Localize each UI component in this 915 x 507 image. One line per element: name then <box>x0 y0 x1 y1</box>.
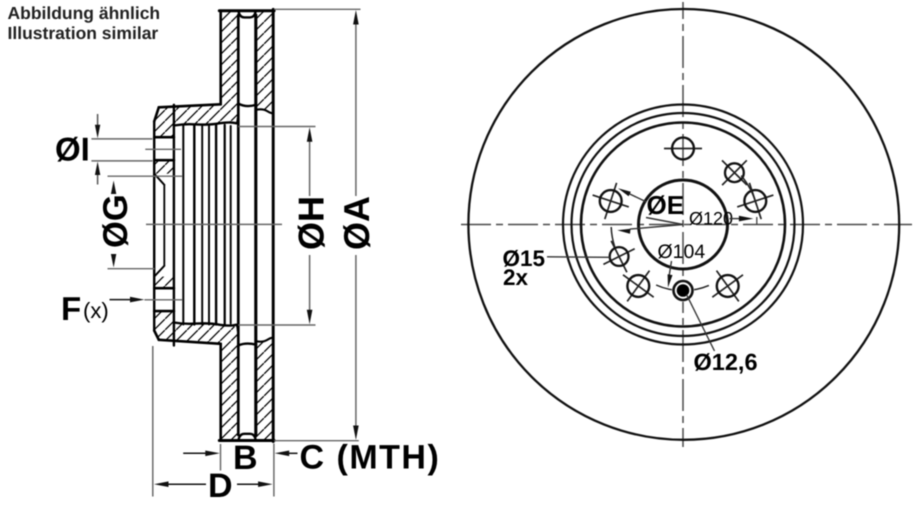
silhouette line of plate inner diameter <box>230 126 232 324</box>
rim-to-drum chamfer (top) <box>154 174 164 185</box>
set screw hole 12.6mm (filled) <box>672 279 694 301</box>
bolt hole centerline (bottom, F(x) pointer) <box>145 299 183 301</box>
dimension D: dim line + inward arrows <box>154 481 169 487</box>
dimension OH: extension lines <box>238 126 315 128</box>
label O104 with left arrow on 104 circle <box>630 225 683 230</box>
dimension OA: dim line + arrows <box>355 24 357 197</box>
hat flange top-left chamfer <box>154 107 159 121</box>
outboard plate inner fillet (top) <box>256 109 273 113</box>
horizontal centerline <box>461 224 912 226</box>
dimension OG: extension lines <box>108 175 183 177</box>
disc OD top edge <box>219 9 274 12</box>
svg-text:ØI: ØI <box>55 131 90 168</box>
hat wall inner surface <box>173 105 175 346</box>
wheel bolt hole in flange: bottom edge <box>154 159 174 162</box>
hub wall block below bolt hole (hatched) <box>154 161 174 174</box>
svg-text:2x: 2x <box>503 265 529 290</box>
hat drum recessed surface <box>163 185 165 266</box>
outboard plate inner fillet (bottom) <box>256 338 273 342</box>
dimension D: extension line left <box>152 346 154 497</box>
center bore circle <box>639 180 728 269</box>
wheel bolt hole (144deg) <box>712 271 743 302</box>
svg-text:D: D <box>208 467 233 505</box>
locating hole 15mm (lower left) <box>603 241 634 272</box>
vent channel end (bottom) <box>238 344 256 346</box>
svg-text:Abbildung ähnlich: Abbildung ähnlich <box>8 3 161 23</box>
hat bottom band top edge (wavy) <box>174 323 238 332</box>
outboard friction plate section bottom (hatched) <box>256 338 273 441</box>
vent channel top floor <box>239 12 256 18</box>
svg-text:F: F <box>61 290 81 327</box>
locating hole 15mm (upper right) <box>722 160 747 185</box>
disc axis centerline <box>146 223 282 225</box>
svg-text:ØG: ØG <box>97 194 135 248</box>
wheel bolt hole (top) <box>664 138 702 160</box>
dimension B: arrows outside <box>183 452 207 454</box>
bolt circle 104 arc (bottom) <box>656 285 709 291</box>
lower bolt hole: top edge <box>154 287 174 290</box>
lower bolt hole: bottom edge <box>154 310 174 313</box>
outboard plate outer face (machined face), full height <box>272 9 275 441</box>
leader to wheel bolt hole (288deg) <box>624 191 647 202</box>
dimension B: extension lines <box>220 444 222 471</box>
hat outer circle <box>563 105 803 345</box>
hat flange bottom edge (wavy, friction ring ID) <box>174 118 238 126</box>
svg-text:Ø104: Ø104 <box>658 241 706 263</box>
svg-text:Ø12,6: Ø12,6 <box>694 349 758 375</box>
dimension OA: extension lines <box>274 8 360 10</box>
vent inner wall (inboard side), full height <box>237 15 240 435</box>
outboard friction plate section top (hatched) <box>256 11 273 114</box>
wheel bolt hole (216deg) <box>623 271 654 302</box>
hub drum visible edges <box>182 125 184 325</box>
inboard friction plate and hat flange section (hatched) <box>154 11 238 137</box>
brake disc cross-section view <box>154 9 274 441</box>
svg-text:ØA: ØA <box>336 196 377 250</box>
hub wall block above lower bolt hole (hatched) <box>154 277 174 289</box>
bolt circle 120 arc (right) <box>741 176 756 205</box>
svg-text:ØH: ØH <box>291 196 332 250</box>
vent channel end (top, at vane root) <box>238 104 256 106</box>
dimension OG: dim line + arrows <box>113 187 115 191</box>
svg-text:(x): (x) <box>83 298 109 323</box>
disc OD bottom edge <box>219 439 274 442</box>
hat flange top edge <box>159 104 221 107</box>
rim-to-drum chamfer (bottom) <box>154 266 164 277</box>
vertical centerline <box>682 2 684 447</box>
hat bottom flange bottom edge <box>159 340 221 344</box>
svg-text:Illustration similar: Illustration similar <box>8 23 159 43</box>
hat step circle <box>572 113 795 336</box>
dimension OI: extension lines <box>91 138 152 140</box>
wheel bolt hole (288deg) <box>593 183 629 219</box>
dimension OI: dim line + arrows <box>97 114 99 127</box>
hat rim outer surface <box>153 122 155 331</box>
svg-text:C (MTH): C (MTH) <box>300 439 441 477</box>
svg-text:Ø120: Ø120 <box>689 209 733 229</box>
hat bottom flange chamfer <box>154 331 159 340</box>
O104 down arrow to bottom arc <box>669 261 672 278</box>
dimension OH: dim line + arrows <box>309 141 311 196</box>
wheel bolt hole (72deg) <box>737 183 773 219</box>
bolt hole centerline (top) <box>145 148 181 150</box>
disc outer diameter circle <box>468 9 899 440</box>
inboard plate bottom + hat bottom flange section (hatched) <box>154 311 238 440</box>
vent channel bottom floor <box>239 434 256 440</box>
hat inner circle <box>581 123 785 327</box>
svg-text:ØE: ØE <box>647 190 685 220</box>
svg-text:B: B <box>233 439 258 477</box>
label O12,6 with leader from filled hole <box>687 295 715 352</box>
vent inner wall (outboard side), full height <box>254 15 257 435</box>
wheel bolt hole in flange: top edge <box>154 136 174 139</box>
bolt circle 104 arc (left) <box>611 227 615 247</box>
inboard plate outer face (left edge) <box>219 11 222 105</box>
